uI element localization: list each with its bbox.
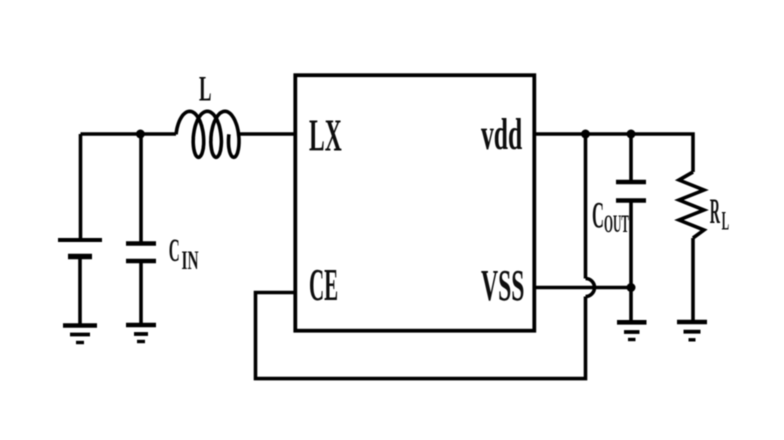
svg-text:IN: IN — [182, 246, 199, 275]
svg-text:L: L — [199, 69, 212, 109]
svg-text:R: R — [710, 191, 721, 231]
svg-text:CE: CE — [309, 259, 338, 310]
svg-text:OUT: OUT — [604, 211, 629, 238]
svg-text:VSS: VSS — [481, 261, 524, 310]
svg-text:C: C — [592, 196, 604, 237]
svg-text:C: C — [169, 233, 180, 269]
svg-text:L: L — [722, 207, 730, 236]
svg-text:LX: LX — [309, 109, 342, 160]
svg-text:vdd: vdd — [481, 110, 522, 159]
